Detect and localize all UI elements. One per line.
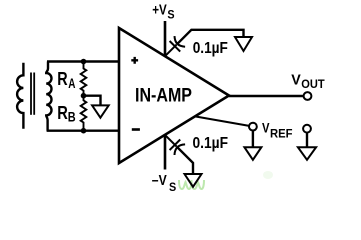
resistor RB [81, 96, 87, 131]
svg-text:0.1µF: 0.1µF [193, 135, 229, 152]
ground (mid node) [92, 105, 109, 117]
capacitor C2 0.1uF (bottom) [165, 135, 185, 155]
svg-text:–V: –V [152, 173, 167, 189]
op-amp + input sign [131, 57, 138, 64]
terminal VOUT [304, 92, 312, 100]
terminal common (right) [303, 125, 311, 133]
svg-text:A: A [68, 76, 75, 91]
wire C2 to ground [177, 147, 193, 174]
watermark faint dot [263, 171, 273, 179]
wire +VS supply [164, 21, 167, 56]
ground (VREF) [244, 147, 261, 160]
resistor RA [81, 62, 87, 96]
resistor RA label [57, 69, 75, 91]
ground (top, C1) [235, 37, 252, 51]
svg-text:S: S [167, 9, 174, 22]
node bottom junction dot [81, 128, 87, 134]
watermark green squiggle [179, 180, 204, 189]
transformer T1 secondary winding [46, 62, 51, 131]
terminal VREF [249, 123, 257, 131]
svg-text:+V: +V [152, 3, 167, 19]
wire top (secondary to +input) [47, 60, 119, 62]
node mid junction dot [81, 93, 87, 99]
svg-text:R: R [57, 103, 68, 123]
transformer T1 primary winding [17, 63, 23, 129]
node top junction dot [81, 59, 87, 65]
svg-text:OUT: OUT [301, 78, 324, 91]
wire common terminal to ground [306, 133, 308, 148]
wire output [229, 95, 304, 97]
resistor RB label [57, 103, 76, 124]
svg-text:0.1µF: 0.1µF [193, 40, 228, 57]
wire VREF to ground [252, 131, 254, 148]
wire -VS supply [164, 135, 167, 170]
op-amp - input sign [132, 128, 140, 131]
+VS supply label [152, 3, 175, 22]
transformer T1 core [31, 73, 34, 115]
wire C1 to ground [177, 30, 243, 44]
svg-text:V: V [262, 120, 270, 136]
svg-text:R: R [57, 69, 67, 89]
ground (bottom, C2) [185, 174, 202, 187]
-VS supply label [152, 173, 177, 194]
svg-text:REF: REF [270, 128, 293, 141]
op-amp U1 IN-AMP triangle [119, 28, 229, 163]
svg-text:B: B [68, 110, 76, 125]
wire bottom (secondary to -input) [47, 129, 119, 131]
capacitor C1 0.1uF (top) [165, 36, 185, 56]
svg-text:S: S [169, 181, 176, 194]
wire VREF [195, 116, 249, 126]
VREF label [262, 120, 293, 141]
svg-text:V: V [291, 72, 301, 88]
VOUT label [291, 72, 324, 90]
wire mid node to ground [84, 96, 101, 106]
svg-text:IN-AMP: IN-AMP [135, 86, 192, 107]
ground (common right) [298, 147, 316, 160]
